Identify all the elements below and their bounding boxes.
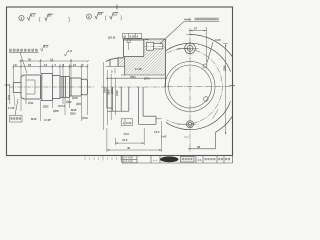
- svg-text:∅30: ∅30: [110, 88, 114, 94]
- section counterbore line: [121, 74, 166, 76]
- small circle on inner circle lower right: [204, 97, 209, 102]
- bottom ruler ticks: [85, 156, 121, 161]
- section left vertical dim lines: [104, 62, 116, 130]
- svg-text:∅11: ∅11: [28, 101, 34, 105]
- svg-text:46: 46: [127, 146, 131, 150]
- svg-text:6.3: 6.3: [113, 12, 117, 16]
- shaft dim texts row: [15, 58, 84, 68]
- svg-text:1: 1: [20, 17, 22, 21]
- svg-text:2: 2: [88, 15, 90, 19]
- shaft sect a: [13, 83, 21, 93]
- svg-text:3×0.5: 3×0.5: [58, 104, 66, 108]
- section body top: [123, 38, 165, 40]
- section tolerance box lower: [121, 119, 133, 126]
- dim ticks: [12, 60, 89, 68]
- svg-text:∅60: ∅60: [107, 89, 111, 95]
- shaft sect c: [41, 74, 53, 101]
- top-right leader note 4xM8: [159, 18, 220, 45]
- shaft upper dim row extension lines: [12, 59, 89, 82]
- section bore line lower: [106, 77, 166, 79]
- section hatch hub band: [125, 56, 166, 75]
- section recess cavity: [123, 39, 143, 56]
- svg-text:12: 12: [73, 63, 77, 67]
- svg-text:+ +: + +: [153, 158, 157, 162]
- note 1 roughness symbols: [20, 13, 70, 23]
- stamp logo: [160, 156, 178, 162]
- svg-text:(24.5): (24.5): [108, 36, 115, 40]
- recess keyway: [127, 40, 130, 42]
- frame center tick left: [5, 84, 10, 86]
- section boss vertical: [117, 58, 119, 67]
- note above shaft: [9, 45, 49, 74]
- roughness above shaft right: [64, 49, 72, 56]
- shaft sect b keyway lines: [26, 75, 35, 99]
- shaft dim row 2: [19, 60, 88, 62]
- section hub left face: [124, 58, 126, 75]
- title block texts: [123, 157, 230, 162]
- flange OD arc r52 clipped by frame: [190, 35, 232, 133]
- svg-text:0.02: 0.02: [130, 35, 136, 39]
- svg-text:14.5: 14.5: [154, 130, 160, 134]
- section centerline: [101, 86, 168, 88]
- svg-text:∟0.05: ∟0.05: [213, 38, 222, 42]
- svg-text:∅16: ∅16: [82, 116, 88, 120]
- svg-text:1.6: 1.6: [98, 12, 102, 16]
- section bottom dims: [107, 121, 162, 152]
- section bolt hole white: [147, 42, 154, 50]
- section hatch flange upper: [144, 39, 166, 56]
- svg-text:∅76: ∅76: [144, 77, 150, 81]
- svg-text:44.5: 44.5: [122, 138, 128, 142]
- section rotated dia texts: [103, 87, 120, 96]
- svg-text:1×45°: 1×45°: [44, 118, 51, 122]
- svg-text:12: 12: [44, 63, 48, 67]
- svg-text:1.6: 1.6: [68, 49, 72, 53]
- section flange left face: [143, 39, 145, 56]
- section bore line upper: [106, 66, 125, 68]
- section lower external half: [107, 87, 162, 124]
- shaft outline: [13, 74, 87, 101]
- shaft centerline: [9, 86, 94, 88]
- svg-text:0.02: 0.02: [126, 121, 132, 125]
- flange register circle r43.2: [166, 43, 231, 129]
- shaft dim row 1: [13, 66, 87, 68]
- svg-text:∅22: ∅22: [66, 100, 72, 104]
- left edge rotated dim text: [7, 94, 11, 100]
- flange right dim: [223, 44, 228, 135]
- svg-text:14.5: 14.5: [124, 132, 130, 136]
- shaft sect f: [70, 78, 82, 96]
- note 2 circled digit: [86, 14, 91, 19]
- shaft lower extension lines: [21, 94, 88, 121]
- frame center tick top: [116, 5, 118, 10]
- section inside labels: [130, 67, 150, 81]
- section outline: [106, 39, 166, 87]
- svg-text:A: A: [136, 35, 138, 39]
- flange view horizontal centerline: [167, 86, 231, 88]
- section hatch boss: [118, 58, 125, 67]
- svg-text:1×45°: 1×45°: [135, 67, 142, 71]
- svg-text:12: 12: [50, 58, 54, 62]
- leader to bcd hole: [203, 38, 221, 68]
- border frame: [7, 7, 233, 156]
- shaft sect b: [21, 75, 41, 99]
- svg-text:M10: M10: [31, 117, 37, 121]
- svg-text:30: 30: [28, 58, 32, 62]
- svg-text:∅11: ∅11: [7, 94, 11, 100]
- svg-text:28: 28: [197, 145, 201, 149]
- section view tolerance box top: [108, 33, 149, 40]
- shaft sect d: [53, 76, 61, 99]
- flange view vertical centerline: [189, 28, 191, 152]
- bottom bolt hole: [178, 121, 196, 128]
- svg-text:∅22: ∅22: [43, 105, 49, 109]
- shaft sect g end: [81, 79, 87, 95]
- flange inner circle 1: [165, 62, 215, 112]
- frame center tick right: [230, 85, 236, 87]
- svg-text:25: 25: [48, 14, 52, 18]
- svg-text:∅26: ∅26: [53, 109, 59, 113]
- note 2 roughness symbols: [88, 12, 123, 21]
- small dim under boss: [114, 68, 116, 74]
- flange inner circle 2: [169, 65, 212, 108]
- svg-text:1:1: 1:1: [198, 158, 202, 162]
- svg-text:6.3: 6.3: [31, 13, 35, 17]
- svg-text:∅18: ∅18: [72, 96, 78, 100]
- section boss left tip: [106, 60, 110, 67]
- svg-text:M16: M16: [71, 108, 77, 112]
- svg-text:∅20: ∅20: [70, 112, 76, 116]
- radial 45 centerline lower right: [213, 110, 219, 120]
- svg-text:∅24: ∅24: [130, 75, 136, 79]
- section bolt hole centerline: [145, 45, 165, 47]
- svg-text:18: 18: [28, 63, 32, 67]
- svg-text:6.3: 6.3: [44, 45, 48, 49]
- svg-text:∅86: ∅86: [223, 65, 227, 71]
- flange top dim: [189, 27, 207, 63]
- shaft lower dim labels: [8, 94, 88, 123]
- section right face: [165, 39, 167, 87]
- svg-text:∅40: ∅40: [115, 90, 119, 96]
- svg-text:4×M8: 4×M8: [184, 18, 192, 22]
- framed note bottom-left: [10, 99, 23, 122]
- top bolt hole: [177, 42, 199, 55]
- note 1 circled digit: [19, 15, 24, 20]
- svg-text:1×8°: 1×8°: [161, 135, 167, 139]
- cross tick at OD arc top: [187, 34, 192, 36]
- svg-text:1×45°: 1×45°: [8, 106, 15, 110]
- svg-text:27: 27: [194, 27, 198, 31]
- svg-text:∅20: ∅20: [76, 102, 82, 106]
- flange bolt circle: [167, 49, 223, 125]
- flange bottom right dim: [188, 132, 216, 149]
- title block strip: [122, 156, 233, 164]
- shaft sect e groove: [60, 77, 70, 98]
- section boss top: [110, 58, 125, 60]
- flange centerline bottom cross: [184, 136, 189, 138]
- section recess inner line: [123, 39, 143, 41]
